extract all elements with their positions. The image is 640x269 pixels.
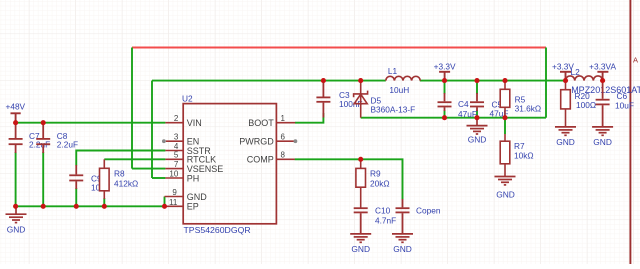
wire PH net vertical [151, 81, 153, 178]
svg-text:R9: R9 [370, 169, 381, 179]
capacitor C3 [316, 81, 330, 118]
svg-text:VIN: VIN [187, 118, 202, 128]
wire COMP net [295, 159, 403, 199]
capacitor C5 [470, 93, 484, 111]
svg-text:11: 11 [169, 198, 178, 207]
pin 4 SSTR [165, 150, 183, 152]
svg-text:10kΩ: 10kΩ [514, 151, 534, 161]
power +3.3V above C4 [439, 72, 450, 81]
svg-text:7: 7 [174, 160, 179, 169]
capacitor C7 [9, 123, 23, 153]
capacitor C4 [438, 93, 452, 111]
svg-text:+3.3VA: +3.3VA [589, 61, 616, 71]
svg-text:U2: U2 [182, 93, 193, 103]
pin 2 VIN [165, 122, 183, 124]
wire RTCLK net [104, 158, 165, 160]
wire +48V input rail [16, 122, 166, 124]
wire +3.3V rail after L1 [420, 80, 566, 82]
pin 7 VSENSE [165, 168, 183, 170]
wire PH to pin [152, 177, 165, 179]
svg-text:A: A [633, 56, 638, 65]
wire C7 bottom [15, 152, 17, 206]
svg-text:R8: R8 [114, 169, 125, 179]
svg-text:10uF: 10uF [615, 100, 634, 110]
svg-text:412kΩ: 412kΩ [114, 178, 138, 188]
ground GND under C6 [592, 127, 613, 135]
power +3.3VA above C6 [597, 72, 608, 81]
svg-text:R7: R7 [514, 141, 525, 151]
wire C5 bottom [476, 110, 478, 118]
wire PH node horizontal [152, 80, 386, 82]
pin 1 BOOT [276, 122, 295, 124]
resistor R8 [100, 159, 110, 199]
svg-text:10: 10 [169, 169, 178, 178]
svg-text:4.7nF: 4.7nF [375, 216, 396, 226]
svg-text:PH: PH [187, 173, 200, 183]
wire C9 bottom [75, 188, 77, 206]
wire SSTR net [76, 151, 165, 166]
svg-text:6: 6 [281, 133, 286, 142]
svg-text:PWRGD: PWRGD [239, 137, 274, 147]
inductor L1 [386, 76, 420, 80]
wire R7 top [504, 118, 506, 134]
ground GND under R7 [495, 177, 516, 185]
svg-text:+48V: +48V [5, 101, 25, 111]
pin 10 PH [165, 177, 183, 179]
wire gnd net D5 to feedback [361, 117, 546, 119]
svg-text:4: 4 [174, 142, 179, 151]
wire C4 bottom [444, 110, 446, 118]
resistor R20 [561, 81, 571, 127]
svg-text:1: 1 [281, 114, 286, 123]
ground GND under Copen [392, 234, 413, 242]
svg-text:L1: L1 [388, 66, 398, 76]
power +3.3V above R20 [560, 72, 571, 81]
svg-text:20kΩ: 20kΩ [370, 178, 390, 188]
wire feedback right vertical [545, 48, 547, 118]
diode D5 schottky [354, 81, 368, 118]
ground GND bottom-left [6, 206, 27, 222]
wire pin9 to rail [164, 197, 166, 207]
capacitor C10 [354, 208, 368, 233]
pin 5 RTCLK [165, 158, 183, 160]
pin 3 EN [166, 140, 183, 142]
svg-text:COMP: COMP [247, 155, 274, 165]
op-amp U2 TPS54260DGQR box [183, 104, 276, 224]
svg-text:GND: GND [7, 225, 26, 235]
pin 11 EP [165, 205, 184, 207]
svg-text:8: 8 [281, 151, 286, 160]
pin 6 PWRGD [276, 140, 294, 142]
svg-text:GND: GND [351, 244, 370, 254]
svg-text:C4: C4 [458, 99, 469, 109]
power +48V [11, 113, 21, 122]
svg-text:GND: GND [556, 137, 575, 147]
svg-text:+3.3V: +3.3V [434, 61, 456, 71]
wire C4 top [444, 81, 446, 94]
svg-text:B360A-13-F: B360A-13-F [371, 104, 416, 114]
svg-text:GND: GND [496, 189, 515, 199]
wire C5 top [476, 81, 478, 94]
svg-text:C10: C10 [375, 205, 391, 215]
svg-text:47uF: 47uF [458, 109, 477, 119]
svg-text:Copen: Copen [416, 205, 441, 215]
capacitor C6 [596, 81, 610, 127]
svg-text:31.6kΩ: 31.6kΩ [515, 104, 542, 114]
wire feedback left vertical [131, 48, 133, 169]
svg-text:GND: GND [593, 137, 612, 147]
svg-text:100Ω: 100Ω [576, 100, 596, 110]
wire VSENSE to pin [132, 168, 165, 170]
svg-text:GND: GND [468, 134, 487, 144]
svg-text:GND: GND [187, 192, 208, 202]
svg-text:BOOT: BOOT [248, 118, 274, 128]
inductor L2 ferrite bead [566, 76, 603, 81]
resistor R7 [500, 134, 510, 176]
svg-text:2.2uF: 2.2uF [57, 140, 78, 150]
svg-text:3: 3 [174, 133, 179, 142]
capacitor Copen [396, 199, 410, 234]
wire VSENSE feedback top (red) [132, 47, 546, 49]
wire ground rail bottom [16, 205, 165, 207]
resistor R5 [500, 81, 510, 118]
svg-text:L2: L2 [571, 67, 581, 77]
svg-text:2: 2 [174, 114, 179, 123]
ground GND under R20 [555, 127, 576, 135]
svg-text:TPS54260DGQR: TPS54260DGQR [184, 225, 251, 235]
wire R8 bottom [103, 198, 105, 206]
ground GND under C4/C5 [467, 118, 488, 134]
svg-text:GND: GND [393, 244, 412, 254]
capacitor C8 [36, 123, 50, 153]
wire BOOT net [295, 113, 323, 123]
frame border right [629, 0, 631, 264]
svg-text:EP: EP [187, 201, 199, 211]
svg-text:9: 9 [172, 188, 177, 197]
resistor R9 [356, 159, 366, 208]
ground GND under C10 [350, 234, 371, 242]
capacitor C9 [69, 165, 83, 189]
wire C8 bottom [42, 152, 44, 206]
svg-text:5: 5 [174, 151, 179, 160]
pin 8 COMP [276, 158, 294, 160]
pin 9 GND [165, 196, 184, 198]
svg-text:10uH: 10uH [389, 85, 409, 95]
